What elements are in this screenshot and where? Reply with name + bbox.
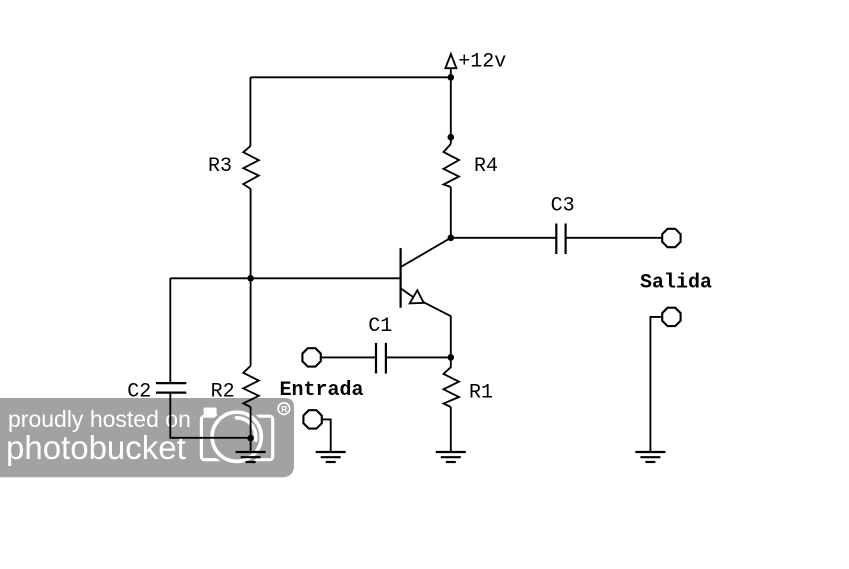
wire base horizontal bbox=[170, 277, 400, 279]
wire C1 to emitter node bbox=[386, 356, 451, 358]
svg-text:photobucket: photobucket bbox=[6, 429, 186, 466]
wire input to C1 bbox=[321, 356, 376, 358]
wire R1 to ground bbox=[450, 407, 452, 452]
terminal output upper bbox=[662, 229, 680, 247]
wire output lower to ground bbox=[650, 317, 662, 452]
svg-text:C2: C2 bbox=[127, 380, 151, 403]
svg-text:R: R bbox=[281, 404, 287, 414]
power symbol +12v triangle bbox=[445, 54, 456, 77]
svg-text:Entrada: Entrada bbox=[280, 379, 364, 402]
node emitter junction bbox=[448, 354, 455, 361]
ground under output bbox=[635, 452, 665, 462]
capacitor C1 bbox=[376, 343, 386, 374]
svg-text:R3: R3 bbox=[208, 155, 232, 178]
terminal input upper bbox=[302, 348, 320, 366]
node collector junction bbox=[448, 235, 455, 242]
wire input lower to ground bbox=[322, 419, 331, 452]
wire collector to C3 bbox=[451, 237, 557, 239]
resistor R4 bbox=[444, 144, 460, 187]
wire C2 branch down bbox=[169, 278, 171, 383]
ground under R1 bbox=[436, 452, 466, 462]
svg-text:Salida: Salida bbox=[640, 271, 712, 294]
node +12v junction bbox=[448, 74, 455, 81]
transistor Q1 collector lead bbox=[401, 238, 451, 267]
ground under input bbox=[316, 452, 346, 462]
wire right vertical upper bbox=[450, 77, 452, 144]
svg-text:R2: R2 bbox=[211, 381, 235, 404]
svg-text:C3: C3 bbox=[551, 194, 575, 217]
resistor R2 bbox=[243, 366, 258, 407]
capacitor C2 bbox=[156, 383, 186, 393]
wire top rail bbox=[250, 76, 450, 78]
terminal output lower bbox=[662, 308, 680, 326]
transistor Q1 emitter arrow bbox=[410, 290, 424, 303]
capacitor C3 bbox=[556, 224, 565, 255]
resistor R1 bbox=[444, 357, 460, 407]
resistor R3 bbox=[243, 146, 258, 189]
transistor Q1 base bar bbox=[400, 248, 402, 308]
wire R4 to collector bbox=[450, 187, 452, 238]
terminal input lower bbox=[303, 410, 321, 428]
svg-text:C1: C1 bbox=[368, 315, 392, 338]
wire left vertical middle bbox=[250, 189, 252, 366]
transistor Q1 emitter lead bbox=[401, 288, 451, 357]
node base junction bbox=[247, 275, 254, 282]
wire R2 bottom bbox=[250, 407, 252, 452]
photobucket watermark box bbox=[0, 398, 294, 477]
svg-text:+12v: +12v bbox=[458, 51, 506, 74]
ground under R2 bbox=[236, 452, 266, 462]
node R4 top bbox=[448, 134, 455, 141]
svg-text:R4: R4 bbox=[474, 155, 498, 178]
watermark (R) mark bbox=[278, 403, 290, 415]
wire C2 bottom bbox=[170, 393, 250, 438]
wire left vertical upper bbox=[249, 77, 251, 146]
svg-text:R1: R1 bbox=[469, 382, 493, 405]
wire C3 to output bbox=[566, 237, 663, 239]
node C2/R2 junction bbox=[247, 435, 254, 442]
watermark camera icon bbox=[201, 408, 272, 462]
